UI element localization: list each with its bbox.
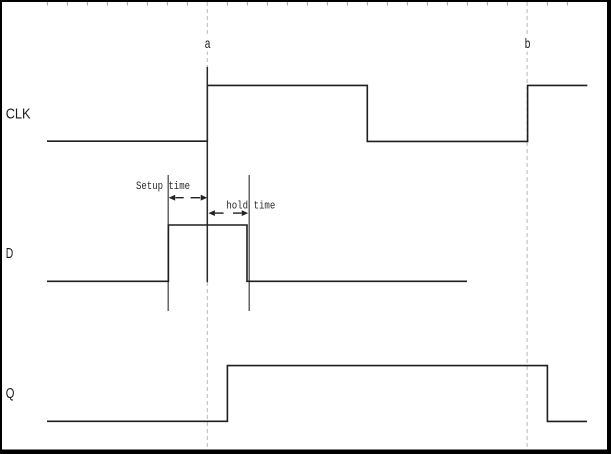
svg-text:CLK: CLK <box>6 105 31 122</box>
svg-text:a: a <box>205 35 211 51</box>
svg-text:Setup time: Setup time <box>136 181 190 193</box>
frame border bottom <box>0 450 611 454</box>
frame border top <box>0 0 611 2</box>
hold time arrow left <box>208 210 223 216</box>
setup time arrow right <box>191 195 208 201</box>
frame border left <box>0 0 2 454</box>
setup window bar (left) <box>167 175 169 311</box>
setup time arrow left <box>169 195 184 201</box>
svg-text:hold time: hold time <box>226 200 275 212</box>
svg-text:b: b <box>525 35 531 51</box>
D waveform <box>47 225 467 281</box>
CLK waveform <box>47 85 587 141</box>
hold time arrow right <box>233 210 248 216</box>
frame border right <box>607 0 611 454</box>
label b <box>521 35 534 52</box>
dashed timeline a <box>206 2 208 450</box>
ruler tick marks along top <box>47 2 567 6</box>
svg-text:D: D <box>6 245 14 262</box>
dashed timeline b <box>526 2 528 450</box>
label a <box>201 35 214 52</box>
event marker line at a (solid) <box>206 67 208 282</box>
Q waveform <box>47 366 587 422</box>
svg-text:Q: Q <box>6 385 15 402</box>
hold window bar (right) <box>248 175 250 311</box>
